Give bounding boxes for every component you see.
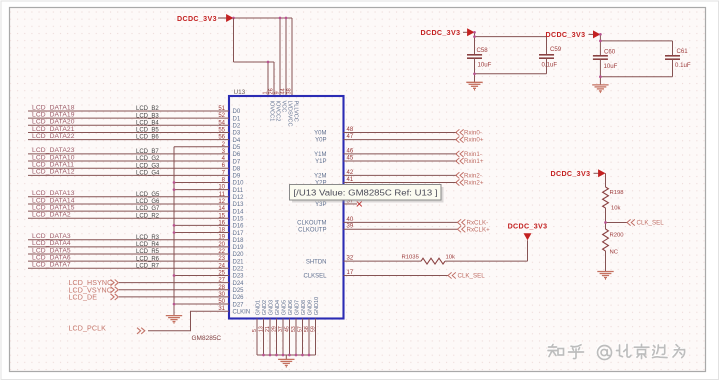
svg-text:57: 57: [297, 326, 303, 332]
pin GND9 (58) wire to ground bus: [304, 300, 314, 355]
svg-text:LCD_R5: LCD_R5: [136, 249, 160, 255]
svg-text:LCD_B6: LCD_B6: [136, 135, 159, 141]
no-ERC cross marker: [357, 201, 362, 206]
power port DCDC_3V3 (C60 C61 decoupling): [546, 30, 601, 38]
svg-text:19: 19: [218, 235, 225, 241]
power port DCDC_3V3 (C58 C59 decoupling): [421, 28, 475, 37]
ground bus wire under U13: [257, 354, 316, 356]
svg-text:LCD_DATA20: LCD_DATA20: [32, 119, 75, 126]
svg-text:LCD_DE: LCD_DE: [69, 293, 98, 301]
svg-text:D16: D16: [233, 224, 245, 230]
net LCD_VSYNC wire to pin D25 (28): [69, 285, 245, 295]
svg-text:LCD_G4: LCD_G4: [136, 170, 160, 176]
svg-text:R198: R198: [610, 190, 625, 196]
svg-text:17: 17: [347, 270, 354, 276]
net Rxin0+ wire from pin Y0P (47): [315, 134, 484, 144]
svg-text:Rxin0-: Rxin0-: [464, 130, 482, 137]
port chevron CLK_SEL: [448, 272, 452, 278]
svg-text:D26: D26: [233, 295, 245, 301]
pin GND1 (5) wire to ground bus: [252, 300, 261, 355]
junction dots on DCDC_3V3 top wire: [232, 17, 287, 20]
svg-text:47: 47: [347, 134, 354, 140]
ground symbol (GND bus): [278, 355, 294, 368]
pin VCC number 9 (U13 top): [274, 91, 286, 112]
svg-text:13: 13: [258, 326, 264, 332]
net LCD_DATA12 wire to pin D9 (7): [28, 169, 241, 180]
svg-text:D21: D21: [233, 259, 245, 265]
svg-text:Rxin2+: Rxin2+: [464, 180, 484, 187]
resistor R1035: [402, 254, 456, 264]
svg-text:10uF: 10uF: [604, 63, 618, 70]
net LCD_DATA23 wire to pin D6 (3): [28, 147, 241, 158]
svg-text:LCD_B5: LCD_B5: [136, 128, 159, 134]
svg-text:LCD_B7: LCD_B7: [136, 149, 159, 155]
wire DCDC_3V3 to R198: [605, 173, 607, 187]
wire ground stub to pin D27 (50): [174, 299, 244, 308]
svg-text:D17: D17: [233, 231, 245, 237]
net CLK_SEL label (divider tap): [627, 219, 664, 226]
port chevron LCD_VSYNC: [111, 287, 115, 293]
svg-text:LCD_DATA18: LCD_DATA18: [32, 104, 75, 111]
wire R1035 to DCDC_3V3 pull-up: [445, 240, 528, 261]
pin IOVCC1 number 1 (U13 top): [262, 91, 274, 121]
wire C58 C59 bottoms to ground: [475, 58, 547, 82]
svg-text:GND2: GND2: [262, 300, 268, 315]
svg-text:32: 32: [347, 256, 354, 262]
svg-text:LCD_R7: LCD_R7: [136, 263, 160, 269]
pin GND7 (53) wire to ground bus: [291, 300, 301, 355]
port chevron LCD_DE: [111, 294, 115, 300]
svg-text:Y2M: Y2M: [314, 173, 326, 179]
pin GND10 (59) wire to ground bus: [310, 297, 320, 355]
svg-text:NC: NC: [610, 250, 619, 256]
svg-text:D15: D15: [233, 216, 245, 222]
svg-text:Y3P: Y3P: [315, 202, 326, 208]
svg-text:LCD_DATA15: LCD_DATA15: [32, 204, 75, 211]
pin PLLVCC number 38 (U13 top): [286, 88, 298, 122]
svg-text:31: 31: [218, 306, 225, 312]
tooltip /U13 Value: GM8285C Ref: U13: [290, 185, 444, 203]
svg-text:10: 10: [218, 185, 225, 191]
svg-text:R1035: R1035: [402, 254, 420, 260]
svg-text:R200: R200: [610, 233, 625, 239]
pin GND5 (37) wire to ground bus: [278, 300, 288, 355]
wire DCDC_3V3 to C58 and C59: [475, 32, 547, 55]
svg-text:48: 48: [347, 127, 354, 133]
svg-text:D11: D11: [233, 188, 244, 194]
svg-text:LCD_DATA6: LCD_DATA6: [32, 254, 71, 261]
svg-text:D0: D0: [233, 109, 241, 115]
svg-text:LCD_DATA21: LCD_DATA21: [32, 126, 75, 133]
wire ground stub to pin D17 (18): [174, 228, 244, 237]
svg-text:D20: D20: [233, 252, 245, 258]
ground symbol (R200): [597, 272, 613, 280]
junction dot C58 bottom: [473, 72, 476, 75]
svg-text:10k: 10k: [446, 254, 456, 260]
net LCD_DATA18 wire to pin D0 (51): [28, 104, 241, 115]
net RxCLK- wire from pin CLKOUTM (40): [297, 217, 488, 227]
svg-text:LCD_DATA4: LCD_DATA4: [32, 240, 71, 247]
svg-text:D1: D1: [233, 116, 241, 122]
svg-text:LCD_B4: LCD_B4: [136, 120, 159, 126]
net LCD_DATA20 wire to pin D2 (54): [28, 119, 241, 130]
svg-text:IOVCC2: IOVCC2: [274, 101, 280, 122]
svg-text:D2: D2: [233, 124, 241, 130]
svg-text:D9: D9: [233, 174, 241, 180]
svg-text:LCD_DATA5: LCD_DATA5: [32, 247, 71, 254]
net LCD_DE wire to pin D26 (30): [69, 292, 245, 302]
svg-text:DCDC_3V3: DCDC_3V3: [508, 223, 548, 231]
op IC U13 GM8285C body: [229, 96, 344, 319]
wire DCDC_3V3 to C60 and C61: [600, 34, 672, 55]
svg-text:Y1M: Y1M: [314, 152, 326, 158]
svg-text:CLKOUTP: CLKOUTP: [298, 227, 326, 233]
wire ground stub to pin D5 (2): [174, 142, 241, 151]
pin GND4 (29) wire to ground bus: [271, 300, 281, 355]
pin IOVCC2 number 26 (U13 top): [268, 88, 280, 121]
svg-text:LCD_DATA14: LCD_DATA14: [32, 197, 75, 204]
svg-text:LCD_DATA10: LCD_DATA10: [32, 154, 75, 161]
svg-text:53: 53: [291, 326, 297, 332]
resistor R200 (not fitted): [603, 229, 625, 256]
svg-text:LCD_G3: LCD_G3: [136, 163, 160, 169]
svg-text:30: 30: [218, 292, 225, 298]
wire SHTDN pin (32) to R1035: [306, 256, 421, 266]
svg-text:23: 23: [218, 256, 225, 262]
svg-text:D14: D14: [233, 209, 245, 215]
net Rxin1+ wire from pin Y1P (45): [315, 155, 484, 165]
svg-text:C61: C61: [677, 48, 689, 55]
net LCD_DATA13 wire to pin D12 (11): [28, 190, 244, 201]
junction dot C60 bottom: [599, 75, 602, 78]
svg-text:LCD_DATA11: LCD_DATA11: [32, 162, 74, 169]
svg-text:0.1uF: 0.1uF: [675, 62, 691, 69]
svg-text:IOVCC1: IOVCC1: [268, 101, 274, 122]
svg-text:Rxin0+: Rxin0+: [464, 137, 484, 144]
pin LVDSVCC number 44 (U13 top): [280, 88, 292, 126]
svg-text:LCD_R4: LCD_R4: [136, 242, 160, 248]
svg-text:LCD_DATA19: LCD_DATA19: [32, 111, 75, 118]
power port DCDC_3V3 (SHTDN pull-up): [508, 223, 548, 241]
svg-text:D18: D18: [233, 238, 245, 244]
svg-text:LCD_G2: LCD_G2: [136, 156, 160, 162]
svg-text:D4: D4: [233, 138, 241, 144]
net LCD_DATA15 wire to pin D14 (14): [28, 204, 244, 215]
svg-text:CLK_SEL: CLK_SEL: [458, 273, 486, 280]
svg-text:CLKIN: CLKIN: [233, 309, 251, 315]
svg-text:D13: D13: [233, 202, 245, 208]
svg-text:C59: C59: [550, 46, 562, 53]
net LCD_DATA14 wire to pin D13 (12): [28, 197, 244, 208]
svg-text:D7: D7: [233, 159, 241, 165]
svg-text:D5: D5: [233, 145, 241, 151]
net LCD_DATA5 wire to pin D20 (22): [28, 247, 244, 258]
svg-text:24: 24: [218, 263, 225, 269]
net LCD_HSYNC wire to pin D24 (27): [69, 278, 245, 288]
svg-text:39: 39: [347, 224, 354, 230]
svg-text:D19: D19: [233, 245, 245, 251]
svg-text:10k: 10k: [611, 206, 621, 212]
svg-text:LVDSVCC: LVDSVCC: [286, 101, 292, 127]
svg-text:D23: D23: [233, 274, 245, 280]
svg-text:Y1P: Y1P: [315, 159, 326, 165]
svg-text:LCD_R3: LCD_R3: [136, 235, 160, 241]
svg-text:LCD_PCLK: LCD_PCLK: [69, 324, 107, 332]
svg-text:GND4: GND4: [275, 300, 281, 315]
junction dot CLK_SEL tap: [604, 221, 607, 224]
svg-text:DCDC_3V3: DCDC_3V3: [177, 15, 217, 23]
wire ground stub to pin D23 (25): [174, 270, 244, 279]
svg-text:CLKSEL: CLKSEL: [303, 274, 327, 280]
svg-text:LCD_DATA12: LCD_DATA12: [32, 169, 75, 176]
resistor R198: [603, 187, 625, 212]
svg-text:GND9: GND9: [307, 300, 313, 315]
net Rxin2- wire from pin Y2M (42): [314, 170, 482, 180]
svg-text:Rxin2-: Rxin2-: [464, 172, 482, 179]
svg-text:56: 56: [218, 135, 225, 141]
svg-text:Rxin1-: Rxin1-: [464, 151, 482, 158]
wire ground stub to pin D10 (8): [174, 178, 244, 187]
svg-text:54: 54: [218, 120, 225, 126]
svg-text:LCD_DATA22: LCD_DATA22: [32, 133, 75, 140]
svg-text:D25: D25: [233, 288, 245, 294]
svg-text:D24: D24: [233, 281, 245, 287]
junction dot at IOVCC1 branch: [267, 61, 270, 64]
port chevron LCD_PCLK: [137, 328, 141, 334]
port chevron Rxin2+: [456, 179, 460, 185]
svg-text:Y0M: Y0M: [314, 131, 326, 137]
svg-text:51: 51: [218, 106, 225, 112]
svg-text:GND1: GND1: [255, 300, 261, 315]
svg-text:20: 20: [218, 242, 225, 248]
svg-text:5: 5: [252, 329, 258, 332]
svg-text:D27: D27: [233, 302, 245, 308]
svg-text:RxCLK+: RxCLK+: [467, 226, 491, 233]
port chevron Rxin1+: [456, 158, 460, 164]
svg-text:GM8285C: GM8285C: [192, 335, 222, 342]
svg-text:GND10: GND10: [314, 297, 320, 315]
svg-text:LCD_B3: LCD_B3: [136, 113, 159, 119]
svg-text:D12: D12: [233, 195, 245, 201]
svg-text:SHTDN: SHTDN: [306, 259, 327, 265]
svg-text:16: 16: [218, 220, 225, 226]
svg-text:LCD_DATA2: LCD_DATA2: [32, 212, 71, 219]
wire C60 C61 bottoms to ground: [600, 59, 672, 85]
svg-text:41: 41: [347, 177, 354, 183]
svg-text:LCD_DATA3: LCD_DATA3: [32, 233, 71, 240]
svg-text:58: 58: [304, 326, 310, 332]
capacitor C61: [665, 48, 691, 69]
svg-text:LCD_G5: LCD_G5: [136, 192, 160, 198]
svg-text:[/U13 Value: GM8285C Ref: U13: [/U13 Value: GM8285C Ref: U13 ]: [294, 189, 438, 198]
junction dot C60 top: [599, 33, 602, 42]
capacitor C59: [539, 46, 562, 68]
svg-text:CLK_SEL: CLK_SEL: [637, 220, 665, 227]
svg-text:11: 11: [219, 192, 226, 198]
svg-text:55: 55: [218, 127, 225, 133]
net LCD_DATA22 wire to pin D4 (56): [28, 133, 241, 144]
wire ground tie for unused data pins: [173, 147, 175, 316]
svg-text:LCD_R2: LCD_R2: [136, 213, 160, 219]
svg-text:LCD_G7: LCD_G7: [136, 206, 160, 212]
svg-text:29: 29: [271, 326, 277, 332]
svg-text:D10: D10: [233, 181, 245, 187]
svg-text:LCD_DATA13: LCD_DATA13: [32, 190, 75, 197]
svg-text:18: 18: [218, 228, 225, 234]
svg-text:25: 25: [218, 270, 225, 276]
svg-text:CLKOUTM: CLKOUTM: [297, 221, 326, 227]
pin GND2 (13) wire to ground bus: [258, 300, 268, 355]
svg-text:Rxin1+: Rxin1+: [464, 158, 484, 165]
ground symbol (C60 C61): [592, 85, 608, 93]
svg-text:GND8: GND8: [301, 300, 307, 315]
svg-text:D6: D6: [233, 152, 241, 158]
wire DCDC_3V3 branch to IOVCC1 / IOVCC2 pins: [234, 18, 275, 96]
net CLK_SEL wire from pin CLKSEL (17): [303, 270, 485, 280]
net LCD_DATA6 wire to pin D21 (23): [28, 254, 244, 265]
pin Y3P (37) no-connect stub: [315, 198, 362, 208]
svg-text:VCC: VCC: [280, 101, 286, 113]
svg-text:52: 52: [218, 113, 225, 119]
svg-text:38: 38: [286, 88, 292, 94]
svg-text:21: 21: [265, 326, 271, 332]
port chevron Rxin1-: [456, 151, 460, 157]
svg-text:14: 14: [218, 206, 225, 212]
pin GND8 (57) wire to ground bus: [297, 300, 307, 355]
power port DCDC_3V3 (R198 divider): [551, 169, 606, 178]
capacitor C58: [467, 47, 492, 68]
ground symbol (C58 C59): [466, 82, 482, 90]
net LCD_DATA19 wire to pin D1 (52): [28, 111, 241, 122]
junction dots on ground bus: [262, 354, 310, 357]
svg-text:GND6: GND6: [288, 300, 294, 315]
pin GND3 (21) wire to ground bus: [265, 300, 275, 355]
pin GND6 (45) wire to ground bus: [284, 300, 294, 355]
svg-text:GND3: GND3: [268, 300, 274, 315]
svg-text:42: 42: [347, 170, 354, 176]
svg-text:D22: D22: [233, 267, 245, 273]
net Rxin0- wire from pin Y0M (48): [314, 127, 482, 137]
net Rxin2+ wire from pin Y2P (41): [315, 177, 484, 187]
wire R198 to R200 and CLK_SEL tap: [606, 208, 628, 229]
port chevron LCD_HSYNC: [111, 280, 115, 286]
net Rxin1- wire from pin Y1M (46): [314, 148, 482, 158]
svg-text:Y0P: Y0P: [315, 138, 326, 144]
wire ground stub to pin D11 (10): [174, 185, 244, 194]
net LCD_DATA10 wire to pin D7 (4): [28, 154, 241, 165]
ground symbol (data pin tie): [166, 316, 182, 324]
svg-text:22: 22: [218, 249, 225, 255]
port chevron Rxin2-: [456, 172, 460, 178]
wire ground stub to pin D16 (16): [174, 220, 244, 229]
svg-text:10uF: 10uF: [478, 61, 492, 68]
svg-text:C60: C60: [604, 48, 616, 55]
svg-text:DCDC_3V3: DCDC_3V3: [546, 31, 586, 39]
svg-text:LCD_DATA23: LCD_DATA23: [32, 147, 75, 154]
svg-text:50: 50: [218, 299, 225, 305]
svg-text:12: 12: [218, 199, 225, 205]
svg-text:PLLVCC: PLLVCC: [292, 101, 298, 122]
svg-text:15: 15: [218, 213, 225, 219]
port chevron Rxin0+: [456, 137, 460, 143]
svg-text:LCD_R6: LCD_R6: [136, 256, 160, 262]
net LCD_DATA2 wire to pin D15 (15): [28, 212, 244, 223]
port chevron RxCLK+: [458, 226, 462, 232]
wire DCDC_3V3 to VCC / LVDSVCC / PLLVCC top pins: [234, 18, 293, 96]
net LCD_DATA3 wire to pin D18 (19): [28, 233, 244, 244]
capacitor C60: [593, 48, 618, 70]
net LCD_PCLK wire to pin CLKIN (31): [69, 306, 251, 334]
pin Y3M (43) stub: [314, 191, 357, 201]
net LCD_DATA11 wire to pin D8 (6): [28, 162, 241, 173]
svg-text:59: 59: [310, 326, 316, 332]
svg-text:D8: D8: [233, 166, 241, 172]
svg-text:GND7: GND7: [294, 300, 300, 315]
net RxCLK+ wire from pin CLKOUTP (39): [298, 224, 490, 234]
net LCD_DATA7 wire to pin D22 (24): [28, 262, 244, 273]
svg-text:GND5: GND5: [281, 300, 287, 315]
svg-text:27: 27: [218, 278, 225, 284]
svg-text:LCD_DATA7: LCD_DATA7: [32, 262, 71, 269]
svg-text:C58: C58: [477, 47, 489, 54]
svg-text:D3: D3: [233, 131, 241, 137]
svg-text:U13: U13: [234, 89, 246, 96]
svg-text:DCDC_3V3: DCDC_3V3: [421, 29, 461, 37]
junction dots on ground tie wire: [173, 181, 176, 305]
net LCD_DATA21 wire to pin D3 (55): [28, 126, 241, 137]
svg-text:46: 46: [347, 148, 354, 154]
svg-text:28: 28: [218, 285, 225, 291]
port chevron RxCLK-: [458, 219, 462, 225]
svg-text:DCDC_3V3: DCDC_3V3: [551, 170, 591, 178]
net LCD_DATA4 wire to pin D19 (20): [28, 240, 244, 251]
svg-text:45: 45: [284, 326, 290, 332]
svg-text:LCD_G6: LCD_G6: [136, 199, 160, 205]
svg-text:0.1uF: 0.1uF: [542, 61, 558, 68]
wire R200 to ground: [605, 251, 607, 272]
junction dot C58 top: [473, 31, 476, 38]
svg-text:37: 37: [278, 326, 284, 332]
svg-text:40: 40: [347, 217, 354, 223]
svg-text:45: 45: [347, 155, 354, 161]
power port DCDC_3V3 feeding U13 supply pins: [177, 14, 234, 23]
port chevron Rxin0-: [456, 129, 460, 135]
svg-text:LCD_B2: LCD_B2: [136, 106, 159, 112]
